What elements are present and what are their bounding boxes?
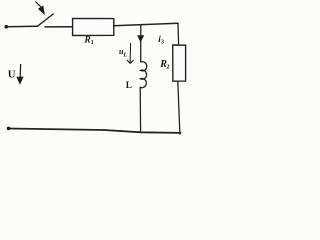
- bottom wire: [9, 129, 181, 133]
- wire (top-left terminal to switch pivot): [6, 25, 37, 27]
- middle branch wire (lower): [139, 87, 141, 132]
- svg-text:U: U: [8, 69, 16, 81]
- wire (switch right contact to R1): [45, 26, 73, 28]
- svg-text:L: L: [122, 51, 127, 58]
- inductor L (coil): [140, 62, 147, 88]
- label uL: [119, 47, 127, 58]
- svg-text:R: R: [83, 36, 90, 46]
- current arrow on middle branch: [137, 35, 144, 42]
- svg-text:3: 3: [161, 38, 164, 45]
- label R1: [83, 36, 93, 46]
- U voltage arrow: [16, 65, 23, 85]
- label R2: [159, 59, 169, 71]
- terminal node (top-left dot): [5, 25, 9, 29]
- svg-text:L: L: [126, 80, 132, 90]
- wire (R1 to top-right corner): [114, 23, 178, 25]
- label i3: [158, 34, 164, 45]
- resistor R2 (box): [173, 45, 186, 81]
- uL voltage arrow: [127, 44, 133, 64]
- right branch wire (lower): [178, 81, 180, 134]
- switch actuation arrow: [36, 2, 45, 15]
- terminal node (bottom-left dot): [7, 127, 11, 131]
- svg-text:2: 2: [166, 64, 169, 71]
- svg-text:1: 1: [91, 40, 94, 46]
- switch S blade: [37, 14, 53, 26]
- right branch wire (upper): [177, 23, 180, 45]
- middle branch wire (upper): [140, 25, 142, 62]
- resistor R1 (box): [73, 18, 114, 35]
